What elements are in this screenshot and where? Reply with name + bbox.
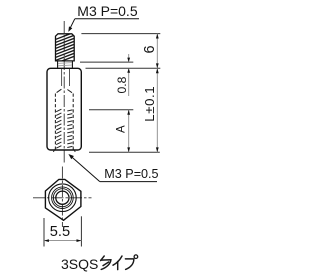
end view vertical centerline — [61, 167, 63, 228]
centerline side view — [63, 21, 65, 163]
thread major circle — [53, 189, 71, 207]
svg-text:M3 P=0.5: M3 P=0.5 — [77, 3, 138, 19]
tap hole circle — [56, 191, 69, 204]
ext line neck top (0.8 upper) — [80, 61, 133, 63]
bottom label underline — [100, 181, 157, 183]
katakana TA — [101, 256, 105, 261]
stud outline — [56, 34, 75, 61]
caption katakana taipu — [101, 255, 138, 270]
dim 0.8 arrows (outside) — [128, 54, 130, 62]
ext line stud top — [81, 33, 160, 35]
bottom label leader with arrowhead — [68, 154, 99, 182]
ext line body top — [86, 67, 161, 69]
thread runout neck — [58, 61, 73, 68]
katakana PU — [125, 259, 133, 270]
svg-text:6: 6 — [142, 45, 158, 53]
svg-text:A: A — [116, 125, 128, 133]
svg-text:M3 P=0.5: M3 P=0.5 — [104, 167, 158, 181]
katakana I — [113, 256, 122, 265]
ext line end view left flat — [43, 218, 45, 247]
ext line thread depth (A top) — [89, 109, 133, 111]
stud M3 male thread body — [54, 32, 76, 64]
ext line end view right flat — [80, 216, 82, 246]
svg-text:5.5: 5.5 — [50, 224, 70, 240]
internal thread zigzag left column — [56, 109, 61, 148]
ext line body bottom — [89, 151, 160, 153]
body rounded square bar — [47, 68, 81, 150]
end view horizontal centerline — [33, 197, 92, 199]
drill cone dashed — [57, 89, 62, 92]
svg-text:L±0.1: L±0.1 — [142, 86, 157, 122]
hidden tap hole dashed lines — [54, 94, 56, 150]
top label underline — [75, 18, 139, 20]
svg-text:3SQS: 3SQS — [61, 256, 98, 272]
svg-text:0.8: 0.8 — [115, 76, 129, 93]
internal thread zigzag right column — [67, 110, 72, 148]
bottom hole chamfer dashes — [53, 149, 55, 152]
dim A line — [128, 110, 130, 153]
dim L line — [156, 68, 158, 152]
hex body end view — [45, 179, 81, 220]
dim 6 line — [156, 34, 158, 69]
countersink circle — [52, 187, 74, 209]
chamfer circle — [49, 184, 77, 212]
dim 5.5 line with arrows — [44, 239, 81, 242]
thread hatch — [54, 32, 76, 64]
stud runout hidden lines into body — [61, 69, 63, 86]
top label leader with arrowhead — [68, 19, 75, 32]
